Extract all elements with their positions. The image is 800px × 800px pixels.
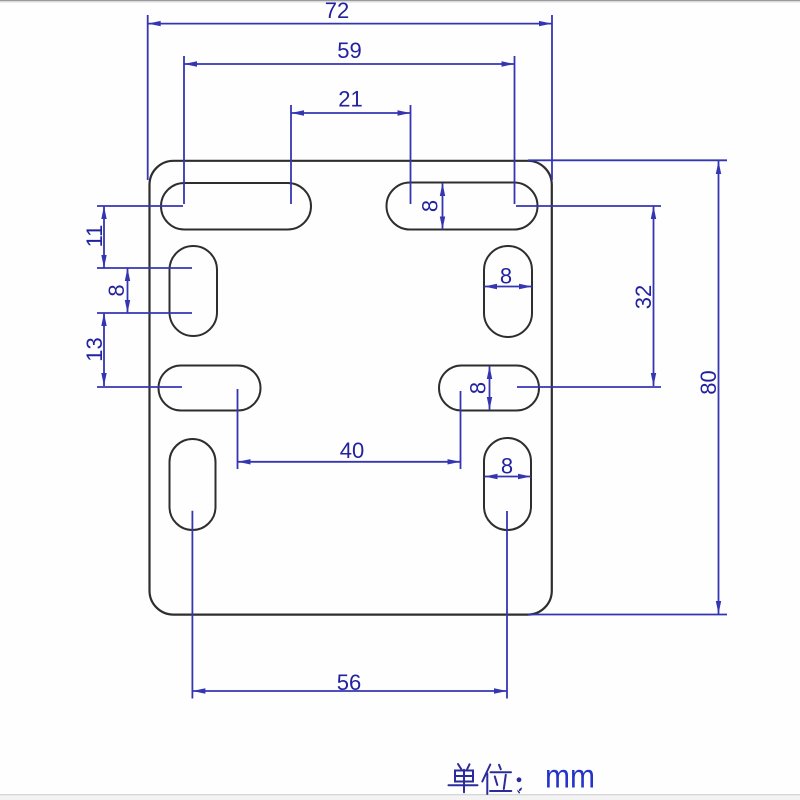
dimension 11 left xyxy=(101,206,106,268)
dimension 40 xyxy=(238,389,461,469)
unit label: character 单 xyxy=(449,764,478,792)
dimension 72 top xyxy=(148,15,552,180)
slot second-row-right xyxy=(484,246,532,337)
dimension 32 right xyxy=(651,206,656,386)
dimension 56 bottom xyxy=(192,511,507,699)
svg-text:13: 13 xyxy=(82,337,107,361)
unit label: full-width semicolon xyxy=(517,777,522,793)
dimension 21 xyxy=(291,105,411,204)
svg-text:40: 40 xyxy=(340,438,364,463)
slot top-left xyxy=(161,183,311,230)
svg-text:59: 59 xyxy=(337,38,361,63)
dimension 8 bottom-right slot xyxy=(485,474,532,479)
svg-text:8: 8 xyxy=(104,284,129,296)
svg-text:8: 8 xyxy=(466,382,491,394)
slot bottom-left xyxy=(170,439,216,530)
dimension 80 far right xyxy=(528,160,727,614)
svg-text:72: 72 xyxy=(325,0,349,23)
slot bottom-right xyxy=(484,438,531,530)
svg-text:32: 32 xyxy=(631,285,656,309)
svg-text:11: 11 xyxy=(82,225,107,248)
svg-text:8: 8 xyxy=(501,454,513,479)
slot top-right xyxy=(387,183,538,230)
dimension 8 left xyxy=(125,268,130,313)
dimension 59 xyxy=(184,56,515,204)
svg-text:56: 56 xyxy=(337,670,361,695)
right connector lines xyxy=(516,206,661,387)
svg-text:mm: mm xyxy=(545,758,595,795)
unit label: character 位 xyxy=(482,765,511,795)
left connector lines xyxy=(97,206,192,387)
bottom page border line xyxy=(0,794,800,800)
svg-text:8: 8 xyxy=(418,200,443,212)
dimension 8 middle-right slot xyxy=(487,366,492,410)
plate outline xyxy=(150,161,552,615)
slot second-row-left xyxy=(170,246,218,336)
slot middle-left xyxy=(159,366,261,411)
dimension 8 top-right slot xyxy=(440,183,445,230)
top page border line xyxy=(0,0,800,3)
svg-text:8: 8 xyxy=(500,264,512,289)
svg-text:21: 21 xyxy=(338,87,362,112)
slot middle-right xyxy=(439,366,539,411)
svg-text:80: 80 xyxy=(696,370,721,394)
dimension 13 left xyxy=(101,313,106,386)
dimension 8 second-row-right slot xyxy=(484,284,532,289)
